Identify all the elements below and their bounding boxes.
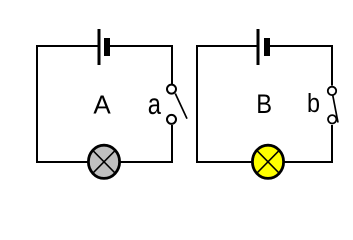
lamp L2 (circuit B, lit) xyxy=(252,145,283,178)
lamp L1 cross line 2 xyxy=(92,150,116,174)
svg-text:b: b xyxy=(307,90,320,118)
lamp L1 (circuit A, off) xyxy=(88,145,119,178)
switch b top contact xyxy=(328,87,336,95)
switch a lever (open) xyxy=(175,94,187,119)
svg-text:B: B xyxy=(256,89,272,119)
lamp L2 cross line 2 xyxy=(256,150,280,174)
wire: circuit B top left segment xyxy=(196,45,257,47)
wire: circuit B bottom xyxy=(196,161,333,163)
battery V2 (circuit B) long plate xyxy=(257,29,260,65)
svg-text:a: a xyxy=(148,88,162,121)
wire: circuit B right vertical upper xyxy=(331,45,333,86)
battery V1 (circuit A) short thick plate xyxy=(104,38,110,56)
wire: circuit B right vertical lower xyxy=(331,125,333,163)
lamp L1 cross line 1 xyxy=(92,150,116,174)
switch a top contact xyxy=(167,85,176,94)
svg-text:A: A xyxy=(93,90,111,120)
switch b lever (closed) xyxy=(333,96,338,123)
wire: circuit A right vertical lower xyxy=(171,125,173,163)
switch a bottom contact xyxy=(167,115,176,124)
wire: circuit B left vertical xyxy=(196,46,198,162)
wire: circuit A top left segment xyxy=(36,45,98,47)
switch b bottom contact xyxy=(328,115,336,123)
battery V2 (circuit B) short thick plate xyxy=(264,38,270,56)
wire: circuit A right vertical upper xyxy=(171,45,173,84)
battery V1 (circuit A) long plate xyxy=(98,29,101,65)
wire: circuit A top right segment xyxy=(110,45,172,47)
wire: circuit A bottom xyxy=(36,161,173,163)
lamp L2 cross line 1 xyxy=(256,150,280,174)
wire: circuit A left vertical xyxy=(36,46,38,162)
wire: circuit B top right segment xyxy=(270,45,332,47)
